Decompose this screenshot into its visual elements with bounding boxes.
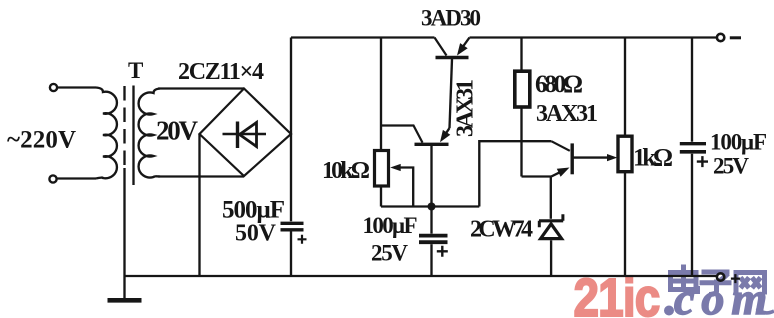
- svg-text:500μF: 500μF: [222, 197, 285, 224]
- svg-text:25V: 25V: [713, 154, 749, 179]
- svg-text:1kΩ: 1kΩ: [633, 145, 673, 172]
- svg-text:3AX31: 3AX31: [453, 79, 479, 137]
- svg-text:100μF: 100μF: [710, 130, 767, 155]
- svg-text:20V: 20V: [156, 116, 199, 146]
- svg-text:100μF: 100μF: [363, 213, 418, 238]
- svg-text:~220V: ~220V: [7, 127, 76, 154]
- svg-text:2CZ11×4: 2CZ11×4: [178, 59, 264, 85]
- svg-text:25V: 25V: [371, 241, 408, 266]
- svg-text:10kΩ: 10kΩ: [322, 158, 370, 184]
- svg-text:3AD30: 3AD30: [421, 6, 481, 31]
- svg-text:3AX31: 3AX31: [536, 101, 598, 127]
- svg-text:680Ω: 680Ω: [535, 71, 583, 98]
- svg-text:50V: 50V: [235, 221, 277, 247]
- svg-text:T: T: [128, 58, 143, 83]
- svg-text:2CW74: 2CW74: [470, 217, 533, 243]
